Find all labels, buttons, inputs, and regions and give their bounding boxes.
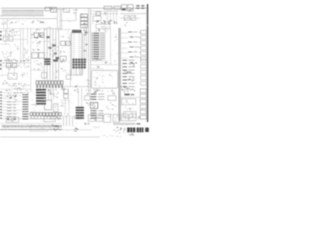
wire: comb baseline xyxy=(0,15,44,17)
filler labels A3 upper xyxy=(3,63,16,70)
lamp cluster HL3 xyxy=(126,78,134,81)
relay K3b xyxy=(66,41,70,45)
wire left vertical xyxy=(5,29,7,45)
wire: bottom rail xyxy=(0,129,62,131)
wire verticals right of U1 xyxy=(84,28,86,62)
label list column A4 xyxy=(7,102,16,121)
U1 bottom terminal grid xyxy=(72,59,85,69)
wire y=64.4 D3 xyxy=(90,64,118,66)
switch S1 xyxy=(64,8,70,12)
wire row y=70 B3 xyxy=(31,69,44,71)
label rows A3 bottom xyxy=(3,83,30,87)
resistor ladder RN1 xyxy=(92,33,105,59)
aux box AX1 xyxy=(6,117,12,122)
connector P1 dark cluster xyxy=(74,9,78,13)
contactor M1 xyxy=(96,12,101,16)
wire row y=100 C4 xyxy=(60,99,70,101)
wire verticals C4 right xyxy=(78,88,81,120)
marks top C5 xyxy=(74,115,78,119)
labels above PS1 row3 xyxy=(97,66,100,68)
module X4 xyxy=(53,104,58,112)
transformer T2 xyxy=(128,5,133,11)
legend text band row1 xyxy=(2,125,62,127)
labels above ladder xyxy=(96,29,107,32)
wire y=60.6 D3 xyxy=(90,60,108,62)
labels C4 left-mid xyxy=(60,102,64,106)
fuse F2 xyxy=(114,6,121,9)
resistor R1 xyxy=(40,22,44,23)
breaker CB1 links xyxy=(136,5,139,6)
revision text under number xyxy=(129,133,134,136)
labels C3 bottom-right xyxy=(86,80,90,87)
wire verticals x=57-61 xyxy=(57,10,61,30)
wire rows A3 top xyxy=(0,59,31,61)
wire: top row feed y=28.6 xyxy=(0,28,62,30)
aux box AX2 xyxy=(13,117,19,122)
wire: vertical divider bar x=119 xyxy=(119,28,121,121)
driver stack U5 xyxy=(76,107,84,119)
labels C3 left xyxy=(60,59,65,62)
wire horizontal y=20.6 xyxy=(60,20,76,22)
wire: inner right border line xyxy=(145,5,147,122)
dash-label rows D4 xyxy=(91,94,105,100)
resistor ladder RN1 backing xyxy=(91,32,105,58)
labels above PS1 row2 xyxy=(104,62,111,64)
labels C3 left2 xyxy=(61,68,64,70)
U1 top cap dark header xyxy=(72,30,81,33)
title dash xyxy=(136,123,140,124)
terminal strip TB2 xyxy=(141,30,147,60)
wire row y=104.6 B4 xyxy=(31,104,44,106)
U1 left pins xyxy=(69,34,71,73)
labels C4 bottom-left row xyxy=(60,113,70,117)
connector J1 pin comb xyxy=(2,10,43,16)
labels A3 mid-right xyxy=(22,73,28,77)
relay K4 xyxy=(64,89,69,93)
labels right of Z2 xyxy=(53,70,58,78)
module X1 xyxy=(32,53,38,59)
contact K6 with slash xyxy=(124,16,129,21)
wire row y=123.4 xyxy=(0,122,62,124)
wire from P1 down xyxy=(75,13,77,21)
labels right of X2 xyxy=(46,53,58,60)
wire: faint lower frame line xyxy=(0,136,100,138)
title text ELECTRIC SCHEMATIC lines xyxy=(114,127,126,133)
terminal block TB1 xyxy=(81,14,88,17)
labels below ladder xyxy=(93,59,101,61)
crystal Y1 xyxy=(66,75,71,79)
labels D4 right top xyxy=(108,90,115,94)
wire stubs down from bus xyxy=(4,19,8,30)
power supply PS1 outline xyxy=(91,70,117,88)
junction blobs on bus xyxy=(46,36,49,38)
box C4 right xyxy=(84,96,90,100)
DIP terminal strip TB6 xyxy=(36,81,63,88)
module X5 xyxy=(60,56,66,61)
labels A3 top xyxy=(5,59,29,62)
wire Y1 vertical xyxy=(69,70,71,87)
wire labels A4 right xyxy=(20,92,29,96)
wire y=68.6 D3 xyxy=(90,68,104,70)
label cluster A2 top xyxy=(5,29,17,36)
op-amp U1 main controller body xyxy=(71,33,82,75)
border corner cell xyxy=(145,128,149,132)
timer TM1 xyxy=(108,96,116,101)
legend dark segment xyxy=(52,125,61,132)
wire from AX2 right xyxy=(19,117,38,119)
wire row y=89.2 xyxy=(0,88,31,90)
legend text band row2 specks xyxy=(4,125,60,128)
filler labels B2 bus area xyxy=(45,40,59,52)
labels right of U1 top xyxy=(83,30,88,34)
wire verticals C4 left xyxy=(65,99,69,113)
label marks row 2 xyxy=(44,27,51,30)
control box CT1 xyxy=(122,99,136,105)
PS1 text rows xyxy=(94,73,105,87)
filler labels C2 left top xyxy=(61,31,69,38)
PS1 right marks xyxy=(109,74,112,77)
regulator VR1 stack xyxy=(44,58,50,60)
wire verticals D1 xyxy=(108,10,117,24)
filter module Z1 xyxy=(8,73,17,79)
terminal rows D4 bottom xyxy=(90,110,103,119)
harness wires A4 xyxy=(2,93,22,119)
sensor B1 xyxy=(6,63,10,67)
wire stubs from sensors xyxy=(9,68,15,74)
label under TB6 xyxy=(37,89,58,91)
junction blobs B2 extra xyxy=(49,47,52,49)
breaker CB2 links xyxy=(141,5,144,6)
marks right of AX9 xyxy=(138,116,141,119)
wire label cluster A4 xyxy=(7,92,19,100)
sensor B2 xyxy=(12,63,16,67)
labels E4 top xyxy=(122,89,135,93)
wire row y=86.6 xyxy=(62,86,92,88)
diode D2 xyxy=(9,37,13,41)
labels D4 right low xyxy=(108,114,115,118)
dark label band E3 bottom xyxy=(120,86,133,90)
node labels under bus xyxy=(1,21,23,25)
fuse F1 xyxy=(104,6,112,9)
marks right of stack xyxy=(48,90,52,95)
wire ladder common xyxy=(110,29,112,63)
labels A3 left lower xyxy=(3,81,8,84)
label band D1 xyxy=(93,20,118,24)
marks mid bottom xyxy=(85,123,90,125)
wire: right sheet border xyxy=(147,4,149,122)
gate A2 box xyxy=(40,33,44,37)
meter box MB1 xyxy=(96,24,110,28)
marks at 74-78 y84-88 xyxy=(75,85,77,87)
U1 pin numbers xyxy=(73,34,81,73)
lamp cluster HL2 xyxy=(124,71,131,74)
wire y=97.2 E4 xyxy=(121,96,140,98)
wire verticals right of stack xyxy=(49,88,54,100)
faint note text lower right xyxy=(102,135,121,138)
relay K1 xyxy=(45,7,50,10)
relay K1b xyxy=(51,7,57,12)
wire under TB4 xyxy=(30,118,62,120)
wire from K1 to right xyxy=(56,8,64,10)
label cluster B2 mid xyxy=(33,41,42,51)
labels left of VR1 xyxy=(34,61,43,70)
dark dash right of VR1 xyxy=(53,60,57,62)
wire bus x=88.5 xyxy=(89,8,91,92)
contact K7 with slash xyxy=(131,16,136,21)
module X2 xyxy=(39,53,45,59)
marks C4 right2 xyxy=(86,102,90,105)
filler labels A2 mid xyxy=(14,44,19,49)
sheet left ticks A3 xyxy=(0,60,2,62)
label specks near M1 xyxy=(104,12,106,15)
marks C4 right edge xyxy=(86,90,90,95)
aux box AX8 xyxy=(122,114,128,121)
control box CT2 xyxy=(124,112,137,118)
sheet left edge ticks upper xyxy=(0,31,2,33)
relay K4b xyxy=(64,94,69,98)
logic block U2 labels xyxy=(31,29,43,38)
labels above PS1 row1 xyxy=(96,58,102,60)
aux box AX3 xyxy=(44,116,55,121)
wire y=18 E1 xyxy=(120,17,140,19)
labels C3 bottom-left xyxy=(61,88,65,91)
label marks mid-left rows xyxy=(31,20,41,23)
module X3 white box xyxy=(44,100,51,110)
indicator rows E3 xyxy=(122,60,134,87)
aux box AX5 xyxy=(96,115,102,122)
wire row C2 top xyxy=(60,29,71,31)
wire stubs under U1 grid xyxy=(76,69,80,76)
wire verticals A2 xyxy=(21,28,24,62)
aux box AX4 xyxy=(88,115,95,122)
labels C4 top-mid xyxy=(74,89,79,92)
transformer T1 xyxy=(121,5,126,11)
fuse row FS1 xyxy=(121,32,141,58)
wire: bus line y=18.6 xyxy=(0,18,57,20)
contactor M2 xyxy=(93,16,101,21)
wire stubs down C5 xyxy=(64,116,73,126)
label cluster A2 bottom-left xyxy=(2,51,13,59)
marks right of AX3 xyxy=(56,117,59,121)
light marks x92-100 xyxy=(93,126,99,128)
wire row y=75 left xyxy=(0,74,8,76)
terminal strip TB5 xyxy=(140,89,146,119)
labels D4 right mid xyxy=(106,103,116,110)
labels E1 bottom xyxy=(121,22,128,26)
wire top-right feed xyxy=(120,13,146,15)
title text row SCHEMATIC ELECTRICAL xyxy=(114,123,135,125)
aux box AX7 xyxy=(113,114,120,122)
drawing number bold blocks xyxy=(127,128,143,133)
resistor ladder RN3 xyxy=(22,94,28,119)
note cluster C5 xyxy=(74,128,78,132)
labels E4 mid xyxy=(125,107,133,111)
terminal band TB4 xyxy=(30,113,61,119)
dash cluster E4 xyxy=(124,94,129,96)
lamp cluster HL1 xyxy=(130,62,137,66)
wire bus B2 verticals xyxy=(44,28,59,80)
relay K5 dark box xyxy=(90,103,97,109)
aux box AX6 xyxy=(104,114,111,122)
filler labels D2 right xyxy=(114,35,117,42)
U1 right pins xyxy=(82,34,84,73)
legend second row xyxy=(30,131,47,133)
left edge terminal ticks A4 xyxy=(0,92,2,119)
label cluster A2 bottom-right xyxy=(24,48,30,57)
wire K3 to U1 xyxy=(70,42,71,44)
diode D1 xyxy=(3,37,7,41)
labels left of X3 xyxy=(32,100,38,112)
wire: sheet top border xyxy=(1,7,147,9)
wire rows y=11,13.5 xyxy=(90,10,118,12)
connector J2 labels row1 xyxy=(94,89,103,93)
filler marks under AX boxes xyxy=(84,123,88,124)
relay K3 xyxy=(61,41,66,45)
gate A1 box xyxy=(34,33,38,37)
filler labels C3 mid xyxy=(63,70,69,73)
aux box AX9 xyxy=(129,114,136,121)
wire: bottom rail faint extension xyxy=(62,129,92,131)
terminal strip TB3 xyxy=(141,59,147,85)
wire rows A2 xyxy=(0,30,20,32)
capacitor bank C2 stack xyxy=(36,89,46,105)
junction dashes on U1 right bus xyxy=(84,34,87,35)
labels under K3 xyxy=(60,51,65,55)
filter Z2 xyxy=(42,72,47,78)
